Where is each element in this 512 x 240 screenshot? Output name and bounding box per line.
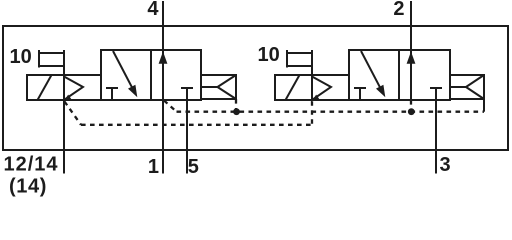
valve V1 body	[101, 50, 201, 100]
air spring return V1	[201, 75, 236, 99]
junction dot at valve V2 supply tap	[408, 108, 415, 115]
air spring V2 pilot stub	[483, 99, 485, 112]
node: port 5 line (valve V1 exhaust)	[186, 88, 188, 174]
solenoid Y1 coil box	[27, 75, 64, 100]
svg-text:12/14: 12/14	[4, 154, 59, 176]
pilot actuation triangle V1	[64, 77, 83, 101]
node: port 4 / 1 line (valve V1 passage line)	[162, 1, 164, 174]
svg-text:10: 10	[258, 44, 280, 66]
node: port 12/14 pilot line (valve V1)	[63, 50, 65, 174]
svg-text:10: 10	[10, 46, 32, 68]
pilot box V2	[312, 75, 349, 100]
solenoid Y2 coil box	[275, 75, 312, 100]
valve V2 blocked port T (actuated square)	[354, 88, 366, 100]
pilot actuation triangle V2	[312, 77, 331, 101]
svg-text:(14): (14)	[9, 176, 47, 198]
junction dot at air spring V1 tap	[233, 108, 240, 115]
svg-text:3: 3	[440, 154, 451, 176]
svg-text:4: 4	[147, 0, 159, 20]
node: port 3 line (valve V2 exhaust)	[435, 88, 437, 174]
svg-text:1: 1	[148, 156, 159, 178]
valve V2 body	[349, 50, 450, 100]
valve V1 blocked port 5 T	[181, 87, 193, 89]
node: port 2 line (valve V2 passage line)	[410, 1, 412, 100]
pilot box V1	[64, 75, 101, 100]
manifold enclosure border	[3, 26, 508, 150]
valve V2 rest-position flow arrow (1 to 2)	[407, 52, 416, 64]
valve V2 supply stub wire (dashed)	[410, 100, 412, 112]
valve V2 actuated-position flow arrow	[361, 51, 381, 88]
air spring return V2	[450, 75, 484, 99]
capped pilot port 10 (valve V2)	[286, 50, 312, 68]
valve V1 rest-position flow arrow (1 to 4)	[159, 52, 168, 64]
svg-text:5: 5	[188, 156, 199, 178]
air spring V1 pilot stub wire (dashed)	[235, 99, 237, 112]
valve V1 actuated-position flow arrow	[113, 51, 133, 88]
capped pilot port 10 (valve V1)	[38, 50, 64, 68]
pilot line V2	[311, 50, 313, 100]
valve V1 blocked port T (actuated square)	[106, 88, 118, 100]
valve V2 blocked port 3 T	[430, 87, 442, 89]
external pilot 12/14 branch wire (dashed)	[65, 102, 82, 125]
svg-text:2: 2	[393, 0, 404, 20]
internal pilot supply wire from port 1 (dashed)	[164, 101, 177, 112]
